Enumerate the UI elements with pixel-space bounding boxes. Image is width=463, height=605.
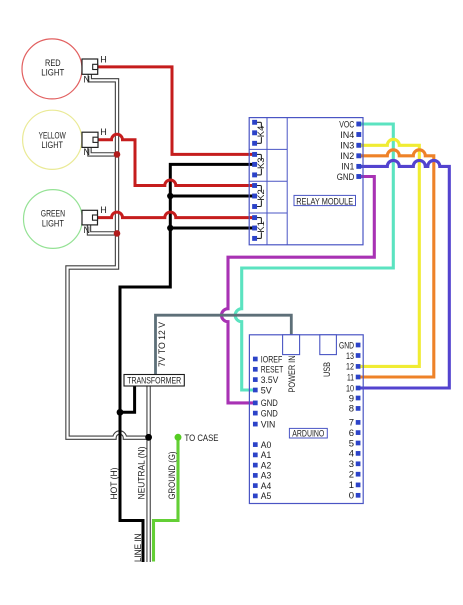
svg-text:1: 1 bbox=[349, 480, 354, 491]
svg-text:H: H bbox=[100, 205, 107, 215]
svg-text:H: H bbox=[100, 54, 107, 64]
svg-text:LINE IN: LINE IN bbox=[133, 534, 143, 563]
svg-text:VOC: VOC bbox=[339, 119, 354, 130]
svg-text:A5: A5 bbox=[261, 491, 272, 502]
svg-text:HOT (H): HOT (H) bbox=[109, 468, 119, 500]
svg-text:IN3: IN3 bbox=[340, 141, 354, 152]
svg-text:TRANSFORMER: TRANSFORMER bbox=[127, 376, 181, 386]
svg-text:6: 6 bbox=[349, 428, 354, 439]
svg-text:GROUND (G): GROUND (G) bbox=[167, 452, 177, 500]
svg-text:VIN: VIN bbox=[261, 419, 276, 430]
svg-text:12: 12 bbox=[346, 362, 354, 373]
svg-text:K1: K1 bbox=[256, 221, 266, 233]
svg-text:11: 11 bbox=[347, 372, 354, 383]
svg-text:POWER IN: POWER IN bbox=[287, 356, 297, 393]
svg-text:3: 3 bbox=[349, 459, 354, 470]
svg-text:H: H bbox=[100, 127, 107, 137]
svg-text:LIGHT: LIGHT bbox=[41, 67, 64, 77]
svg-text:0: 0 bbox=[349, 491, 354, 502]
svg-text:GND: GND bbox=[337, 172, 355, 183]
svg-text:5V: 5V bbox=[261, 385, 273, 396]
svg-text:IN2: IN2 bbox=[340, 151, 354, 162]
svg-text:K4: K4 bbox=[256, 126, 266, 138]
svg-text:4: 4 bbox=[349, 449, 354, 460]
svg-text:5: 5 bbox=[349, 438, 354, 449]
svg-text:RELAY MODULE: RELAY MODULE bbox=[296, 196, 353, 207]
svg-text:9: 9 bbox=[349, 393, 354, 404]
svg-text:2: 2 bbox=[349, 470, 354, 481]
svg-text:8: 8 bbox=[349, 404, 354, 415]
svg-text:N: N bbox=[84, 147, 91, 157]
svg-text:N: N bbox=[84, 74, 91, 84]
svg-text:13: 13 bbox=[346, 351, 354, 362]
svg-text:GREEN: GREEN bbox=[41, 209, 65, 219]
svg-text:RED: RED bbox=[45, 58, 61, 68]
svg-text:NEUTRAL (N): NEUTRAL (N) bbox=[136, 447, 146, 500]
svg-text:7V TO 12 V: 7V TO 12 V bbox=[157, 322, 167, 367]
svg-text:K3: K3 bbox=[256, 158, 266, 170]
svg-text:TO CASE: TO CASE bbox=[185, 433, 219, 443]
svg-text:IN4: IN4 bbox=[340, 130, 354, 141]
svg-text:GND: GND bbox=[339, 340, 354, 351]
svg-text:K2: K2 bbox=[256, 189, 266, 201]
svg-text:USB: USB bbox=[322, 362, 332, 377]
svg-text:3.5V: 3.5V bbox=[261, 375, 279, 386]
svg-text:N: N bbox=[84, 225, 91, 235]
svg-text:LIGHT: LIGHT bbox=[42, 218, 64, 228]
svg-text:LIGHT: LIGHT bbox=[41, 140, 63, 150]
svg-text:ARDUINO: ARDUINO bbox=[292, 428, 324, 439]
svg-text:GND: GND bbox=[261, 408, 278, 419]
